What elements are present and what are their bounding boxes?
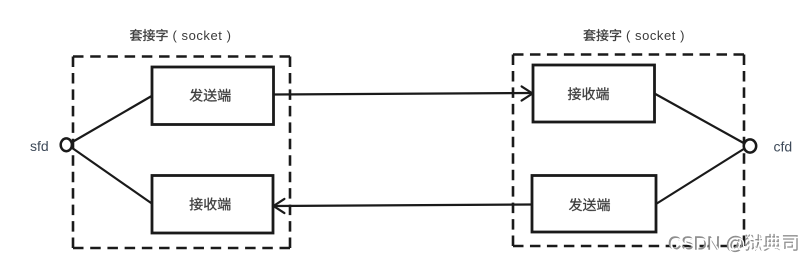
svg-text:( socket ): ( socket ) xyxy=(626,28,685,43)
left receiver box 接收端 xyxy=(152,176,273,234)
svg-text:cfd: cfd xyxy=(774,139,793,155)
label 发送端 (right) xyxy=(569,198,610,211)
svg-text:sfd: sfd xyxy=(30,138,49,154)
label: left 套接字（socket） title xyxy=(130,29,168,41)
wire: top arrow 发送端 -> 接收端 xyxy=(274,93,532,95)
wire 接收端 to cfd xyxy=(655,94,745,144)
label 发送端 (left) xyxy=(190,89,231,102)
left sender box 发送端 xyxy=(152,67,274,125)
right socket boundary (dashed box) xyxy=(513,55,744,247)
left socket boundary (dashed box) xyxy=(73,57,290,249)
right sender box 发送端 xyxy=(532,176,656,233)
label 接收端 (right) xyxy=(568,87,609,100)
wire sfd to 接收端 xyxy=(72,148,153,205)
arrowhead right (top arrow) xyxy=(522,86,533,100)
wire sfd to 发送端 xyxy=(72,96,153,143)
svg-text:CSDN @: CSDN @ xyxy=(670,234,746,255)
svg-text:( socket ): ( socket ) xyxy=(173,28,232,43)
right receiver box 接收端 xyxy=(533,65,655,122)
node sfd (circle) xyxy=(61,138,72,151)
label: right 套接字（socket） title xyxy=(583,29,621,41)
node cfd (circle) xyxy=(744,139,756,152)
wire: bottom arrow 发送端 -> 接收端 (leftward) xyxy=(275,205,533,207)
arrowhead left (bottom arrow) xyxy=(274,199,285,213)
wire 发送端 to cfd xyxy=(656,149,745,205)
watermark CSDN @狱典司 xyxy=(668,233,799,256)
label 接收端 (left) xyxy=(190,198,231,211)
